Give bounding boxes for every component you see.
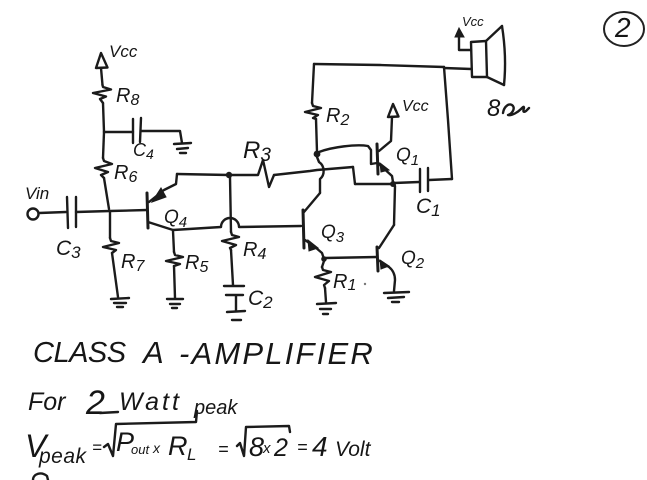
svg-text:For: For: [28, 388, 67, 416]
svg-text:L: L: [187, 445, 196, 464]
resistor R3: [231, 137, 353, 187]
svg-text:R7: R7: [121, 251, 145, 275]
svg-text:R3: R3: [243, 137, 271, 166]
ground (R5): [167, 299, 183, 308]
power symbol Vcc (above Q1): [388, 98, 429, 117]
wire rail down to C1: [444, 67, 452, 179]
wire R8 to C4 junction: [103, 103, 104, 132]
svg-text:Q2: Q2: [401, 248, 425, 272]
text For 2 Watt peak: [28, 384, 238, 422]
ground (C4): [174, 143, 191, 153]
svg-text:8: 8: [487, 95, 501, 122]
power symbol Vcc (left, above R8): [96, 42, 138, 85]
svg-text:x: x: [262, 440, 271, 457]
svg-text:R1: R1: [333, 271, 356, 294]
svg-text:Q1: Q1: [396, 145, 419, 169]
svg-text:2: 2: [273, 434, 288, 462]
ground (R1): [317, 303, 336, 314]
wire R3 to output node: [353, 167, 355, 184]
wire C3 to Q4 base: [76, 210, 147, 212]
wire node B to Q1 base: [319, 145, 377, 164]
svg-text:C3: C3: [56, 237, 81, 262]
svg-text:R8: R8: [116, 85, 139, 109]
capacitor C3: [56, 197, 81, 262]
svg-text:Watt: Watt: [119, 388, 182, 416]
partial letter next line (cut off): [33, 473, 48, 480]
resistor R1: [315, 261, 366, 302]
resistor R2: [305, 64, 349, 152]
wire rail to speaker: [444, 68, 471, 69]
svg-text:8: 8: [249, 432, 264, 462]
formula Vpeak = sqrt(Pout x RL) = sqrt(8x2) = 4 Volt: [25, 428, 102, 468]
svg-text:peak: peak: [193, 397, 238, 419]
wire junction to R6: [103, 132, 104, 158]
svg-text:2: 2: [614, 12, 631, 43]
transistor Q2: [377, 225, 425, 291]
svg-text:Vin: Vin: [25, 184, 49, 203]
radical sqrt(Pout x RL): [104, 411, 197, 456]
resistor R4: [222, 232, 266, 285]
wire node C to Q2 base: [325, 257, 377, 258]
node D (output: Q1 emitter / C1 / Q2 collector): [390, 181, 396, 187]
wire node A down to R4: [230, 177, 231, 232]
svg-text:Volt: Volt: [335, 438, 372, 461]
ground (Q2): [384, 292, 409, 302]
svg-text:Vcc: Vcc: [402, 98, 429, 115]
svg-text:2: 2: [85, 384, 105, 422]
wire Vin to C3: [39, 212, 66, 213]
transistor Q1: [377, 117, 419, 182]
svg-text:4: 4: [312, 431, 328, 462]
svg-text:R: R: [168, 431, 188, 461]
capacitor C4: [133, 118, 182, 162]
power symbol Vcc (speaker): [455, 14, 484, 50]
svg-text:x: x: [152, 440, 161, 456]
node A (R3/R4 junction): [226, 172, 232, 178]
title CLASS A - AMPLIFIER: [33, 335, 375, 371]
transistor Q4: [147, 174, 187, 231]
svg-text:C2: C2: [248, 287, 273, 312]
svg-text:R2: R2: [326, 105, 349, 129]
svg-text:Vcc: Vcc: [462, 14, 484, 29]
wire Q4 emitter to node A: [177, 174, 229, 175]
svg-text:Q4: Q4: [164, 207, 187, 231]
resistor R6: [95, 158, 137, 186]
svg-text:A: A: [141, 335, 164, 370]
svg-text:=: =: [92, 438, 102, 457]
wire junction to C4: [104, 131, 133, 133]
wire Q4 collector to Q3 base (hop over R4): [173, 218, 301, 230]
node Vin terminal: [25, 184, 49, 220]
resistor R5: [166, 231, 208, 298]
wire node B down to Q3 collector (hop over R3 wire): [317, 157, 324, 193]
resistor R8: [93, 85, 139, 109]
svg-text:Vcc: Vcc: [109, 42, 138, 61]
svg-text:=: =: [218, 439, 229, 459]
svg-text:Q3: Q3: [321, 222, 345, 246]
wire R6 to base junction: [104, 178, 109, 209]
wire top rail: [314, 64, 444, 67]
page number circle 2: [604, 12, 644, 46]
wire Q2 collector to output node: [394, 186, 395, 225]
ground (R7): [111, 298, 129, 307]
svg-text:R4: R4: [243, 239, 266, 263]
capacitor C1: [394, 168, 452, 220]
svg-text:R6: R6: [114, 162, 137, 186]
speaker (8 ohm): [471, 26, 529, 122]
resistor R7: [103, 211, 145, 297]
node C (Q3 emitter / R1 / Q2 base): [321, 256, 327, 262]
capacitor C2: [224, 286, 273, 312]
radical sqrt(8x2): [237, 426, 290, 456]
svg-text:CLASS: CLASS: [33, 337, 127, 369]
svg-text:C4: C4: [133, 140, 154, 162]
svg-text:=: =: [297, 437, 308, 457]
node B (R2 bottom / Q1 base / Q3 collector): [314, 151, 321, 158]
svg-text:C1: C1: [416, 195, 441, 220]
svg-text:-AMPLIFIER: -AMPLIFIER: [179, 336, 375, 371]
ground (C2): [227, 311, 245, 320]
svg-text:out: out: [131, 442, 150, 457]
svg-text:R5: R5: [185, 252, 208, 276]
svg-text:peak: peak: [38, 445, 88, 468]
transistor Q3: [303, 193, 345, 259]
